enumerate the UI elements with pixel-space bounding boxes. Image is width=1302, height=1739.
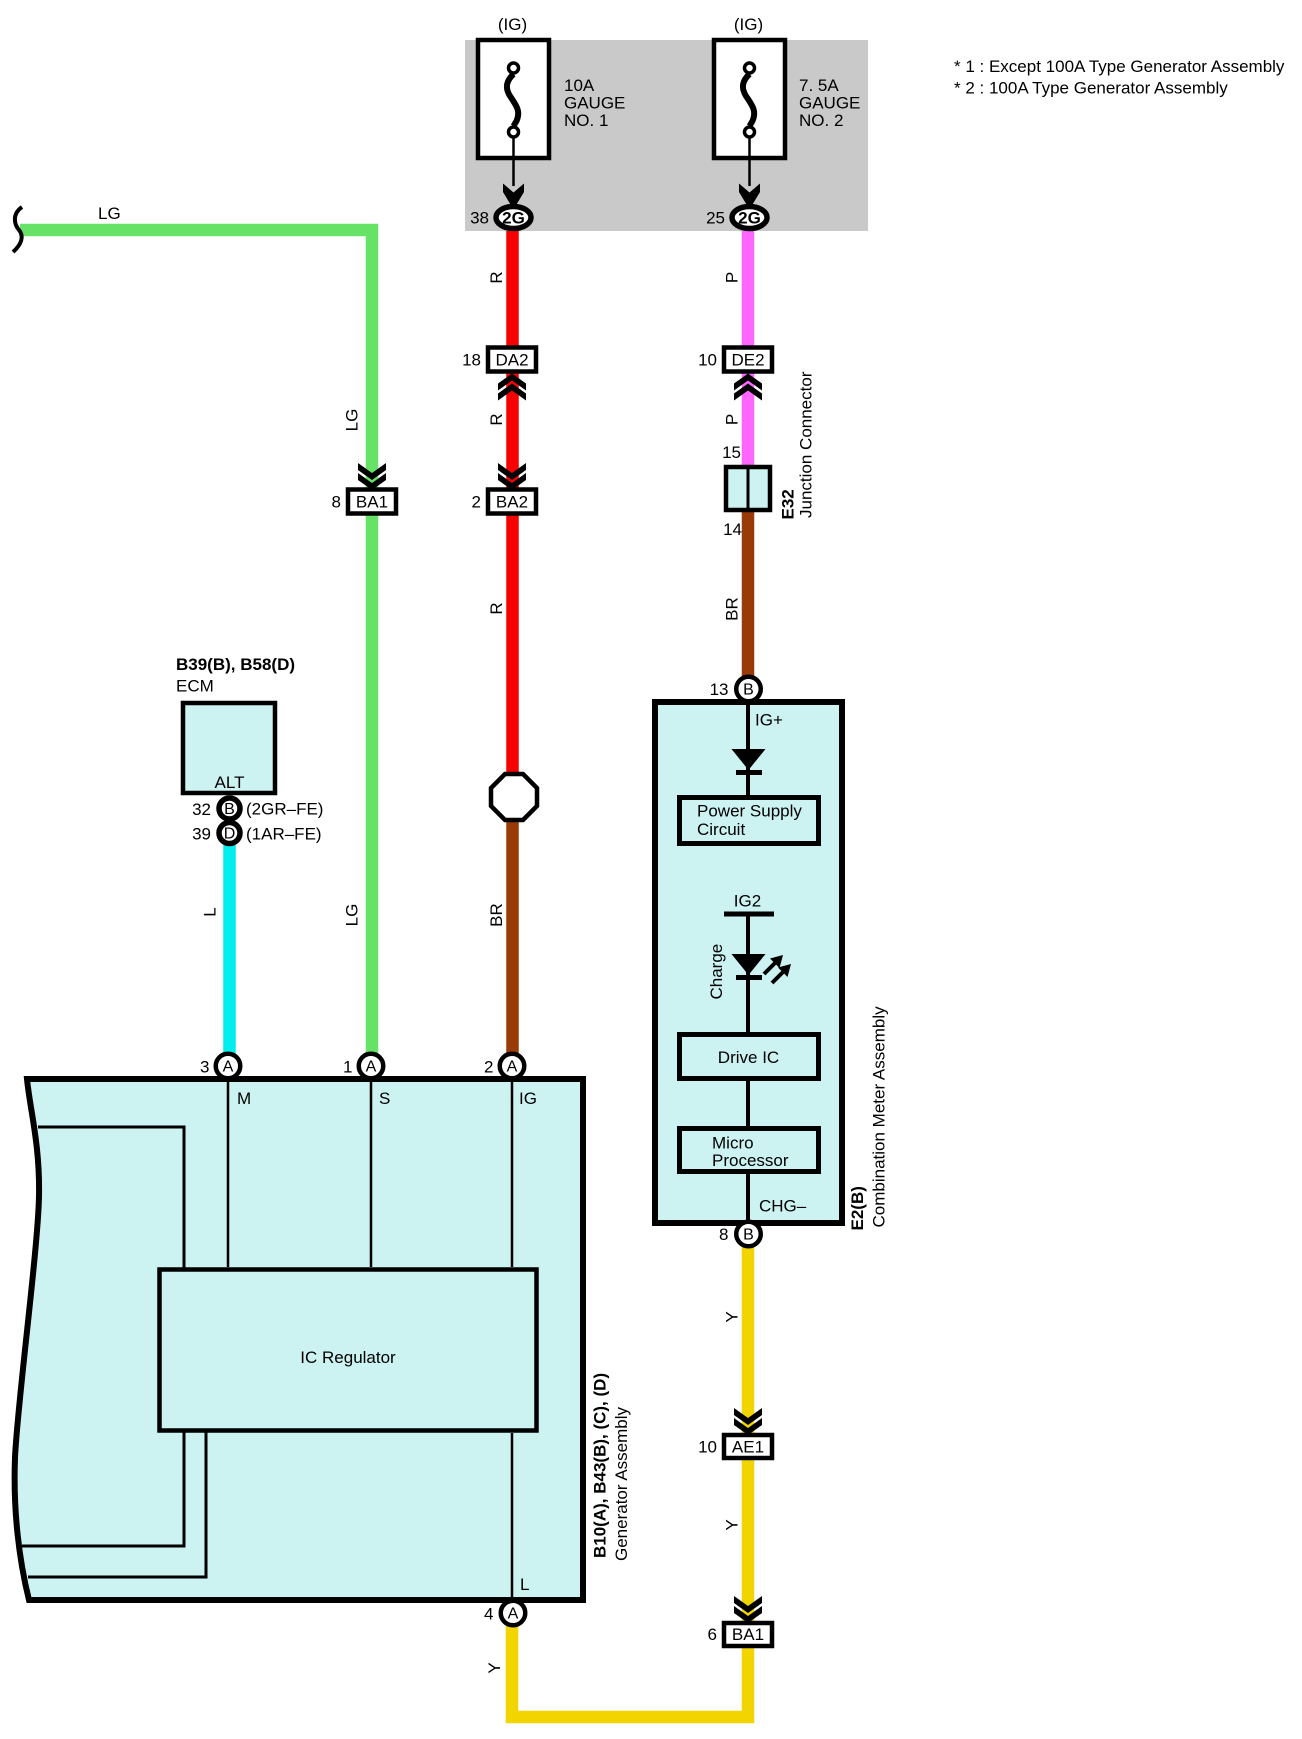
chevrons above BA1 pin 8 (pointing down): [358, 463, 386, 480]
svg-text:Y: Y: [485, 1662, 504, 1673]
svg-text:2G: 2G: [502, 209, 525, 228]
svg-text:B: B: [743, 682, 754, 699]
svg-text:DA2: DA2: [495, 351, 528, 370]
svg-text:R: R: [487, 602, 506, 614]
svg-text:Circuit: Circuit: [697, 820, 745, 839]
chevrons below DA2 (pointing up): [498, 374, 526, 391]
combination meter assembly box: [655, 702, 842, 1223]
wire L (internal): [511, 1433, 514, 1601]
connector AE1 pin 10: [698, 1435, 772, 1458]
svg-text:Combination Meter Assembly: Combination Meter Assembly: [870, 1006, 889, 1228]
svg-text:E32: E32: [779, 489, 798, 519]
svg-text:(1AR–FE): (1AR–FE): [246, 825, 322, 844]
svg-text:NO. 1: NO. 1: [564, 111, 608, 130]
svg-text:10A: 10A: [564, 76, 595, 95]
svg-text:(IG): (IG): [498, 15, 527, 34]
svg-text:39: 39: [192, 825, 211, 844]
IG2 tap bar: [724, 912, 774, 917]
svg-text:LG: LG: [98, 204, 121, 223]
svg-text:E2(B): E2(B): [848, 1186, 867, 1230]
svg-text:BA2: BA2: [496, 493, 528, 512]
svg-text:M: M: [237, 1089, 251, 1108]
node B pin 13: [736, 677, 761, 702]
svg-text:ECM: ECM: [176, 677, 214, 696]
svg-text:GAUGE: GAUGE: [564, 94, 625, 113]
stator winding line: [22, 1127, 184, 1546]
svg-text:ALT: ALT: [215, 773, 245, 792]
wire IG (internal): [511, 1079, 514, 1267]
fuse GAUGE NO.1 box: [478, 40, 549, 186]
svg-text:Junction Connector: Junction Connector: [797, 371, 816, 518]
svg-text:B: B: [743, 1227, 754, 1244]
svg-text:BA1: BA1: [356, 493, 388, 512]
octagon splice: [491, 774, 537, 820]
svg-text:1: 1: [343, 1058, 352, 1077]
svg-text:Micro: Micro: [712, 1134, 754, 1153]
fuse block (gray): [465, 40, 868, 231]
svg-text:38: 38: [470, 209, 489, 228]
svg-text:10: 10: [698, 351, 717, 370]
svg-text:15: 15: [722, 443, 741, 462]
svg-text:LG: LG: [343, 409, 362, 432]
svg-text:GAUGE: GAUGE: [799, 94, 860, 113]
ECM pin B (32): [219, 798, 240, 819]
wire M (internal): [227, 1079, 230, 1267]
svg-text:Y: Y: [723, 1311, 742, 1322]
svg-text:B: B: [224, 801, 235, 818]
svg-text:L: L: [520, 1575, 529, 1594]
svg-text:7. 5A: 7. 5A: [799, 76, 839, 95]
svg-text:A: A: [223, 1059, 234, 1076]
svg-text:(2GR–FE): (2GR–FE): [246, 800, 323, 819]
internal wire IG2 to drive IC: [746, 914, 750, 1032]
node A pin 2: [500, 1054, 525, 1079]
junction connector E32: [726, 465, 770, 512]
wire P (pink): [742, 231, 755, 467]
connector 2G pin 38: [496, 207, 531, 229]
svg-text:14: 14: [723, 520, 742, 539]
svg-text:IG+: IG+: [755, 711, 783, 730]
svg-text:P: P: [723, 414, 742, 425]
svg-text:IC Regulator: IC Regulator: [300, 1348, 396, 1367]
fuse GAUGE NO.2 box: [714, 40, 785, 186]
connector 2G pin 25: [732, 207, 767, 229]
wire S (internal): [370, 1079, 373, 1267]
svg-text:2G: 2G: [738, 209, 761, 228]
svg-text:8: 8: [332, 493, 341, 512]
connector BA1 pin 6: [708, 1623, 772, 1646]
node B pin 8: [736, 1222, 761, 1247]
svg-text:Drive IC: Drive IC: [718, 1048, 779, 1067]
chevrons above BA1 pin 6 (pointing down): [734, 1596, 762, 1613]
svg-text:B39(B), B58(D): B39(B), B58(D): [176, 655, 295, 674]
wire R (red): [506, 231, 519, 776]
diode: [732, 749, 766, 770]
wire Y (yellow): [512, 1246, 748, 1717]
svg-text:D: D: [224, 826, 236, 843]
svg-text:B10(A), B43(B), (C), (D): B10(A), B43(B), (C), (D): [591, 1373, 610, 1558]
svg-text:3: 3: [200, 1058, 209, 1077]
svg-text:L: L: [201, 907, 220, 916]
svg-text:Generator Assembly: Generator Assembly: [612, 1406, 631, 1561]
connector BA1 pin 8: [332, 490, 396, 514]
svg-text:Power Supply: Power Supply: [697, 802, 802, 821]
svg-text:R: R: [487, 413, 506, 425]
chevrons above BA2 pin 2 (pointing down): [498, 463, 526, 480]
svg-text:R: R: [487, 271, 506, 283]
ECM box: [183, 703, 275, 793]
svg-text:10: 10: [698, 1438, 717, 1457]
svg-text:(IG): (IG): [734, 15, 763, 34]
internal wire micro to CHG-: [746, 1174, 750, 1221]
svg-text:13: 13: [710, 680, 729, 699]
svg-text:A: A: [508, 1606, 519, 1623]
generator assembly box: [15, 1079, 583, 1600]
svg-text:A: A: [366, 1059, 377, 1076]
svg-text:Y: Y: [723, 1519, 742, 1530]
svg-text:* 2 : 100A Type Generator Asse: * 2 : 100A Type Generator Assembly: [954, 79, 1228, 98]
charge LED: [732, 954, 766, 975]
svg-text:2: 2: [484, 1058, 493, 1077]
arrow into connector 2G (38): [503, 184, 524, 205]
wire LG (green): [20, 230, 372, 1055]
svg-text:IG: IG: [519, 1089, 537, 1108]
arrow into connector 2G (25): [739, 184, 760, 205]
wire L (cyan): [223, 845, 236, 1055]
svg-text:25: 25: [706, 209, 725, 228]
svg-text:8: 8: [719, 1225, 728, 1244]
ECM pin D (39): [219, 823, 240, 844]
chevrons below DE2 (pointing up): [734, 374, 762, 391]
node A pin 3: [216, 1054, 241, 1079]
svg-text:Processor: Processor: [712, 1151, 789, 1170]
svg-text:2: 2: [472, 493, 481, 512]
chevrons above AE1 (pointing down): [734, 1408, 762, 1425]
field winding line: [28, 1290, 206, 1577]
internal wire to diode: [746, 702, 750, 795]
svg-text:6: 6: [708, 1625, 717, 1644]
wire BR (brown, to meter): [742, 510, 755, 678]
svg-text:4: 4: [484, 1605, 493, 1624]
wire BR (brown, below octagon): [506, 818, 519, 1055]
svg-text:BA1: BA1: [732, 1625, 764, 1644]
svg-text:CHG–: CHG–: [759, 1197, 807, 1216]
svg-text:BR: BR: [487, 903, 506, 927]
connector BA2 pin 2: [472, 490, 536, 514]
svg-text:DE2: DE2: [731, 351, 764, 370]
svg-text:18: 18: [462, 351, 481, 370]
svg-text:BR: BR: [723, 597, 742, 621]
IC regulator box: [160, 1270, 537, 1431]
svg-text:LG: LG: [343, 904, 362, 927]
svg-text:32: 32: [192, 800, 211, 819]
internal wire drive IC to micro: [746, 1081, 750, 1126]
power supply circuit box: [680, 798, 819, 844]
drive IC box: [680, 1035, 819, 1079]
continuation squiggle at LG wire end: [13, 207, 22, 252]
node A pin 1: [359, 1054, 384, 1079]
svg-text:AE1: AE1: [732, 1438, 764, 1457]
svg-text:NO. 2: NO. 2: [799, 111, 843, 130]
svg-text:A: A: [507, 1059, 518, 1076]
svg-text:IG2: IG2: [734, 892, 761, 911]
svg-text:S: S: [379, 1089, 390, 1108]
svg-text:Charge: Charge: [707, 944, 726, 1000]
connector DE2 pin 10: [698, 348, 772, 372]
micro processor box: [680, 1129, 819, 1172]
connector DA2 pin 18: [462, 348, 536, 372]
svg-text:P: P: [723, 272, 742, 283]
node A pin 4: [501, 1601, 526, 1626]
svg-text:* 1 : Except 100A Type Generat: * 1 : Except 100A Type Generator Assembl…: [954, 57, 1285, 76]
